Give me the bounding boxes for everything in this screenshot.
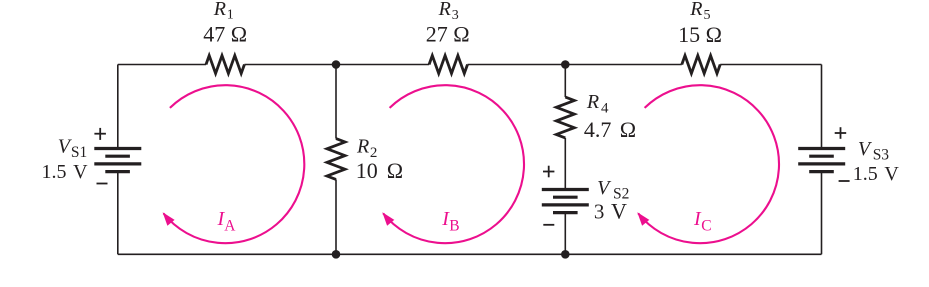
- mesh loop IB arrowhead: [382, 212, 394, 226]
- mesh loop IC arc: [638, 85, 779, 243]
- wire top rail: VS1 to R1: [118, 64, 206, 66]
- svg-text:B: B: [449, 217, 459, 234]
- minus sign VS3: [839, 180, 850, 182]
- svg-text:R: R: [356, 136, 369, 158]
- battery VS3: [798, 149, 845, 172]
- svg-text:S1: S1: [71, 144, 87, 161]
- svg-text:1.5 V: 1.5 V: [853, 163, 900, 185]
- svg-text:V: V: [858, 138, 873, 160]
- svg-text:1.5 V: 1.5 V: [42, 161, 89, 183]
- wire top rail: R1 to node A: [244, 64, 429, 66]
- wire below VS2: [564, 213, 566, 255]
- resistor R2: [327, 139, 345, 180]
- wire top rail: R3 to R5: [468, 64, 682, 66]
- mesh loop IB arc: [383, 85, 524, 243]
- svg-text:3: 3: [452, 8, 459, 23]
- svg-text:R: R: [438, 0, 451, 20]
- battery VS1: [94, 149, 141, 172]
- mesh loop IA arc: [164, 85, 305, 243]
- svg-text:47 Ω: 47 Ω: [203, 21, 247, 46]
- svg-text:S3: S3: [873, 147, 890, 164]
- svg-text:1: 1: [227, 7, 234, 22]
- wire middle branch above R4: [564, 65, 566, 98]
- wire top rail: R5 to VS3: [720, 64, 821, 66]
- wire R2 branch below: [335, 179, 337, 254]
- wire left branch below VS1: [117, 172, 119, 255]
- wire R2 branch above: [335, 65, 337, 139]
- svg-text:R: R: [586, 91, 599, 113]
- svg-text:4.7 Ω: 4.7 Ω: [584, 117, 636, 142]
- svg-text:C: C: [701, 217, 711, 234]
- node top-right junction: [561, 60, 570, 69]
- svg-text:4: 4: [601, 100, 609, 116]
- node bottom-left junction: [332, 250, 341, 259]
- wire right branch above VS3: [821, 65, 823, 149]
- svg-text:R: R: [689, 0, 702, 20]
- svg-text:R: R: [213, 0, 226, 20]
- resistor R5: [682, 56, 720, 74]
- svg-text:15 Ω: 15 Ω: [678, 22, 722, 47]
- wire left branch above VS1: [117, 65, 119, 149]
- svg-text:27 Ω: 27 Ω: [426, 22, 470, 47]
- resistor R3: [429, 56, 467, 74]
- svg-text:V: V: [597, 177, 612, 199]
- node top-left junction: [332, 60, 341, 69]
- mesh loop IC arrowhead: [637, 212, 649, 226]
- plus sign VS2: [543, 166, 554, 178]
- svg-text:A: A: [224, 217, 236, 234]
- battery VS2: [542, 190, 589, 213]
- minus sign VS1: [97, 183, 108, 185]
- wire right branch below VS3: [821, 172, 823, 255]
- wire bottom rail: [118, 253, 822, 255]
- mesh loop IA arrowhead: [163, 212, 175, 226]
- plus sign VS3: [835, 127, 847, 139]
- node bottom-right junction: [561, 250, 570, 259]
- wire between R4 and VS2: [564, 138, 566, 190]
- plus sign VS1: [94, 128, 106, 140]
- svg-text:V: V: [611, 198, 627, 223]
- resistor R1: [206, 56, 244, 74]
- resistor R4: [556, 97, 574, 138]
- svg-text:3: 3: [594, 199, 605, 223]
- svg-text:10 Ω: 10 Ω: [356, 158, 403, 183]
- svg-text:5: 5: [704, 8, 711, 23]
- minus sign VS2: [543, 224, 554, 226]
